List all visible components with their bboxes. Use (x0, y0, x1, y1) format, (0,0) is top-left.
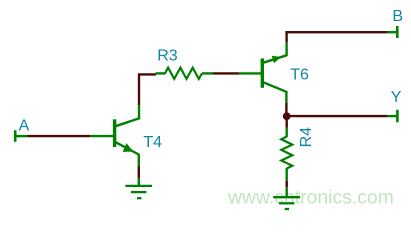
wire green to T6 base (239, 72, 261, 74)
T4 emitter wire green to ground (138, 178, 140, 186)
T6 collector wire maroon (285, 103, 287, 116)
wire A maroon (28, 135, 91, 137)
T6 collector diagonal lower (263, 82, 286, 92)
terminal Y bar (396, 110, 399, 123)
resistor R4 top lead green (286, 128, 288, 137)
T6 collector wire green (285, 91, 287, 103)
T4 collector wire green (138, 105, 140, 119)
svg-text:R4: R4 (298, 127, 315, 148)
wire maroon corner to B (287, 32, 388, 42)
T6 emitter wire green up (285, 42, 287, 56)
resistor R3 zigzag (165, 68, 202, 79)
resistor R3 left lead green (156, 72, 166, 74)
svg-text:A: A (19, 117, 30, 134)
wire A green to T4 base (90, 135, 114, 137)
terminal B bar (396, 26, 399, 38)
resistor R4 bottom lead maroon (286, 181, 288, 187)
svg-text:B: B (392, 8, 403, 25)
resistor R4 bottom lead green (286, 168, 288, 181)
T4 emitter wire maroon (138, 167, 140, 179)
T4 emitter diagonal (116, 142, 139, 154)
terminal Y green stub (387, 115, 397, 117)
terminal A (14, 130, 17, 142)
T4 emitter arrow (123, 143, 134, 152)
resistor R4 bottom lead green 2 (286, 187, 288, 197)
svg-text:Y: Y (391, 89, 402, 106)
T6 emitter diagonal upper (263, 55, 286, 62)
T6 emitter arrow (272, 56, 281, 64)
T4 emitter wire green (138, 154, 140, 167)
svg-text:T4: T4 (143, 134, 162, 151)
wire A green stub (14, 135, 28, 137)
T4 collector diagonal (116, 118, 140, 126)
T4 collector wire maroon corner to R3 (139, 74, 156, 105)
ground under R4 (273, 196, 300, 198)
svg-text:www.cntronics.com: www.cntronics.com (227, 188, 394, 209)
wire Y maroon (287, 115, 387, 117)
transistor T6 bar (261, 58, 264, 87)
junction node (283, 112, 291, 120)
svg-text:R3: R3 (157, 47, 178, 64)
terminal B green stub (387, 31, 397, 33)
resistor R4 zigzag (281, 137, 292, 169)
resistor R3 right lead green (202, 72, 213, 74)
svg-text:T6: T6 (290, 67, 309, 84)
resistor R4 top lead maroon (286, 116, 288, 128)
wire R3 to T6 maroon (213, 72, 239, 74)
ground under T4 (125, 185, 152, 187)
transistor T4 bar (113, 119, 116, 147)
